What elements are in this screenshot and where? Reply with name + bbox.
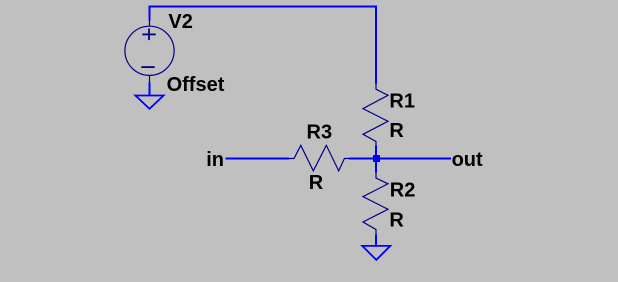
svg-text:R: R [389,209,404,231]
wire V2 bottom to ground [149,83,151,96]
label in [206,149,224,171]
resistor R3 [289,145,350,171]
wire R1 bottom to node [375,146,377,159]
resistor R1 [363,84,388,147]
label R3 [307,122,333,144]
label R2 [390,180,416,202]
wire V2 top vertical [149,6,151,21]
ground under V2 [135,96,163,109]
label out [452,149,483,171]
wire R1 top vertical [375,6,377,84]
wire node to out [376,158,451,160]
node junction square [373,155,380,162]
svg-text:out: out [452,149,483,171]
R1 value label R [389,120,404,142]
wire R3 to node [349,158,376,160]
svg-text:R3: R3 [307,122,333,144]
V2 value label Offset [167,74,225,96]
voltage source V2 [125,20,174,83]
wire node to R2 [375,159,377,173]
ground under R2 [362,246,390,260]
svg-text:R1: R1 [389,90,415,112]
label V2 [168,11,192,33]
resistor R2 [363,172,388,235]
R2 value label R [389,209,404,231]
R3 value label R [309,172,324,194]
svg-text:in: in [206,149,224,171]
wire from in to R3 [225,158,289,160]
svg-text:R: R [309,172,324,194]
wire top horizontal from V2 to R1 [149,6,378,8]
wire R2 bottom to ground [375,235,377,246]
svg-text:Offset: Offset [167,74,225,96]
svg-text:R2: R2 [390,180,416,202]
label R1 [389,90,415,112]
svg-text:V2: V2 [168,11,192,33]
svg-text:R: R [389,120,404,142]
